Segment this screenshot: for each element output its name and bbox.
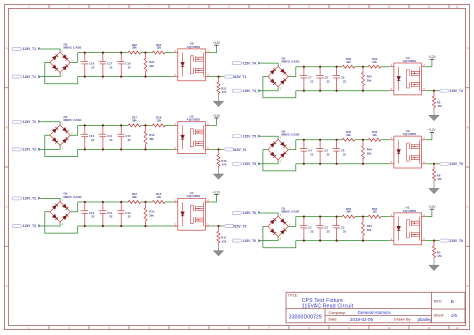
svg-text:C5: C5 — [324, 149, 328, 153]
power +12V — [213, 114, 221, 118]
svg-text:B: B — [467, 125, 469, 129]
power +12V — [428, 55, 436, 59]
wire P input to bridge top — [39, 49, 60, 52]
svg-text:C1: C1 — [308, 225, 312, 229]
wire P input to bridge top — [259, 213, 278, 216]
capacitor C14 — [98, 124, 113, 150]
capacitor C8 — [316, 66, 331, 92]
power +12V — [428, 128, 436, 132]
wire IC pin4 to +12V — [209, 45, 216, 52]
svg-text:13k: 13k — [156, 195, 161, 199]
svg-text:REV:: REV: — [434, 300, 442, 304]
svg-text:8: 8 — [308, 5, 310, 9]
capacitor C4 — [299, 139, 314, 165]
bridge rectifier D1 — [266, 214, 292, 241]
svg-text:R3: R3 — [437, 250, 441, 254]
resistor R52 — [342, 215, 355, 218]
svg-text:C13: C13 — [89, 134, 95, 138]
svg-text:Sheet:: Sheet: — [434, 314, 445, 318]
svg-text:4: 4 — [148, 5, 150, 9]
frame row tick marks left — [5, 88, 9, 247]
svg-text:C15: C15 — [125, 134, 131, 138]
connector 115V_T6 output — [439, 239, 449, 242]
svg-text:C3: C3 — [341, 225, 345, 229]
svg-text:Company:: Company: — [329, 311, 346, 315]
resistor R24 — [144, 53, 154, 78]
svg-text:115V_T5_N: 115V_T5_N — [243, 162, 261, 166]
wire N input to bridge bottom — [259, 160, 278, 164]
wire bridge left corner to bottom rail — [45, 135, 78, 156]
svg-text:115V_T6_N: 115V_T6_N — [243, 239, 261, 243]
wire top rail — [78, 201, 174, 203]
wire bottom rail — [296, 163, 390, 165]
svg-text:R6: R6 — [437, 174, 441, 178]
wire bottom rail — [78, 76, 174, 78]
svg-text:MB05_CASE: MB05_CASE — [64, 118, 82, 122]
svg-text:R16: R16 — [221, 159, 227, 163]
junction node — [362, 216, 364, 218]
resistor R14 — [144, 202, 154, 227]
svg-text:C11: C11 — [107, 211, 112, 215]
resistor R17 — [128, 124, 141, 127]
wire IC pin3 to output — [209, 76, 224, 78]
svg-text:R14: R14 — [149, 210, 155, 214]
capacitor C13 — [80, 124, 95, 150]
capacitor C18 — [117, 52, 132, 78]
resistor R13 — [152, 201, 165, 204]
svg-text:39k: 39k — [346, 210, 351, 214]
resistor R43 — [368, 138, 381, 141]
svg-text:115V_T4_P: 115V_T4_P — [243, 61, 261, 65]
svg-text:B: B — [6, 125, 8, 129]
title block dividers — [286, 292, 465, 323]
resistor R44 — [362, 140, 372, 165]
svg-text:AQY282S: AQY282S — [403, 132, 417, 136]
junction node — [144, 52, 146, 54]
connector 115V_T4 output — [439, 89, 449, 92]
svg-text:115V_T2_P: 115V_T2_P — [23, 120, 41, 124]
resistor R53 — [368, 215, 381, 218]
resistor R54 — [362, 217, 372, 242]
svg-text:MB05_CASE: MB05_CASE — [282, 133, 300, 137]
junction output node — [217, 148, 219, 150]
resistor R33 — [368, 65, 381, 68]
svg-text:115V_T5_P: 115V_T5_P — [243, 134, 261, 138]
svg-text:MB05_CASE: MB05_CASE — [64, 195, 82, 199]
resistor R18 — [152, 124, 165, 127]
svg-text:13k: 13k — [156, 46, 161, 50]
svg-text:39k: 39k — [346, 60, 351, 64]
capacitor C2 — [316, 216, 331, 242]
resistor R19 — [144, 125, 154, 150]
resistor R12 — [128, 201, 141, 204]
capacitor C16 — [80, 52, 95, 78]
wire bottom rail — [78, 148, 174, 150]
svg-text:5: 5 — [188, 5, 190, 9]
wire IC pin3 to output — [425, 90, 439, 92]
bridge rectifier D4 — [48, 199, 74, 226]
resistor R6 — [432, 164, 442, 183]
capacitor C17 — [98, 52, 113, 78]
title block border — [286, 292, 465, 323]
svg-text:115V_T4_N: 115V_T4_N — [243, 89, 261, 93]
relay U2 AQY282S — [390, 136, 425, 168]
svg-text:D: D — [6, 284, 8, 288]
svg-text:Date:: Date: — [329, 318, 338, 322]
svg-text:115V_T2: 115V_T2 — [233, 148, 246, 152]
svg-text:AQY282S: AQY282S — [187, 45, 201, 49]
svg-text:115V_T5: 115V_T5 — [450, 162, 463, 166]
wire bridge left corner to bottom rail — [45, 62, 78, 83]
connector J 115V_T5_N — [232, 162, 242, 165]
wire N input to bridge bottom — [259, 87, 278, 91]
relay U6 AQY282S — [174, 49, 209, 81]
wire bridge right corner to top rail — [70, 125, 77, 135]
svg-text:6: 6 — [228, 5, 230, 9]
svg-text:C: C — [467, 205, 469, 209]
svg-text:R21: R21 — [221, 86, 227, 90]
wire N input to bridge bottom — [39, 73, 60, 77]
svg-text:13k: 13k — [372, 210, 377, 214]
svg-text:115V_T1_N: 115V_T1_N — [23, 75, 41, 79]
wire IC pin3 to output — [209, 148, 224, 150]
svg-text:AQY282S: AQY282S — [403, 59, 417, 63]
wire top rail — [296, 216, 390, 218]
resistor R22 — [128, 51, 141, 54]
svg-text:10: 10 — [388, 5, 391, 9]
junction output node — [217, 76, 219, 78]
wire bottom rail — [78, 225, 174, 227]
svg-text:115V_T3_N: 115V_T3_N — [23, 224, 41, 228]
svg-text:Drawn By:: Drawn By: — [394, 318, 412, 322]
svg-text:R9: R9 — [437, 100, 441, 104]
bridge rectifier D2 — [266, 137, 292, 164]
resistor R9 — [432, 91, 442, 110]
wire IC pin3 to output — [209, 225, 224, 227]
wire bridge right corner to top rail — [70, 202, 77, 212]
power +12V — [213, 190, 221, 194]
wire bridge right corner to top rail — [288, 140, 296, 150]
wire IC pin4 to +12V — [425, 132, 432, 139]
svg-text:33000D00729: 33000D00729 — [289, 314, 322, 320]
svg-text:39k: 39k — [132, 46, 137, 50]
capacitor C7 — [299, 66, 314, 92]
svg-text:C10: C10 — [89, 211, 95, 215]
wire IC pin4 to +12V — [425, 59, 432, 66]
resistor R3 — [432, 241, 442, 260]
svg-text:MB05_CASE: MB05_CASE — [282, 60, 300, 64]
junction node — [362, 139, 364, 141]
connector J 115V_T2_P — [12, 120, 22, 123]
capacitor C11 — [98, 201, 113, 227]
svg-text:1: 1 — [28, 5, 30, 9]
wire bridge left corner to bottom rail — [263, 77, 296, 98]
capacitor C10 — [80, 201, 95, 227]
capacitor C1 — [299, 216, 314, 242]
wire top rail — [296, 139, 390, 141]
svg-text:D: D — [467, 284, 469, 288]
relay U4 AQY282S — [174, 198, 209, 230]
svg-text:3: 3 — [108, 5, 110, 9]
svg-text:C16: C16 — [89, 61, 95, 65]
resistor R11 — [217, 226, 227, 245]
bridge rectifier D3 — [266, 64, 292, 91]
connector J 115V_T1_P — [12, 48, 22, 51]
wire P input to bridge top — [39, 122, 60, 125]
wire bridge left corner to bottom rail — [263, 226, 296, 247]
junction output node — [433, 90, 435, 92]
wire top rail — [78, 52, 174, 54]
ground — [213, 168, 223, 179]
svg-text:R24: R24 — [149, 60, 155, 64]
connector 115V_T2 output — [224, 148, 234, 151]
svg-text:AQY282S: AQY282S — [187, 194, 201, 198]
capacitor C9 — [332, 66, 347, 92]
svg-text:MB05_CASE: MB05_CASE — [64, 45, 82, 49]
svg-text:7: 7 — [268, 5, 270, 9]
svg-text:MB05_CASE: MB05_CASE — [282, 209, 300, 213]
resistor R42 — [342, 138, 355, 141]
svg-text:1/6: 1/6 — [451, 313, 458, 318]
capacitor C6 — [332, 139, 347, 165]
wire bridge right corner to top rail — [288, 217, 296, 227]
wire top rail — [78, 124, 174, 126]
svg-text:TITLE:: TITLE: — [288, 293, 298, 297]
frame column numbers bottom — [28, 326, 459, 330]
wire IC pin4 to +12V — [425, 209, 432, 216]
junction node — [144, 124, 146, 126]
connector J 115V_T6_P — [232, 212, 242, 215]
junction node — [362, 66, 364, 68]
svg-text:R19: R19 — [149, 133, 155, 137]
svg-text:AQY282S: AQY282S — [403, 209, 417, 213]
svg-text:R11: R11 — [221, 236, 226, 240]
svg-text:13k: 13k — [372, 60, 377, 64]
svg-text:A: A — [467, 46, 469, 50]
connector J 115V_T3_N — [12, 225, 22, 228]
relay U3 AQY282S — [390, 63, 425, 95]
svg-text:39k: 39k — [132, 119, 137, 123]
wire top rail — [296, 66, 390, 68]
svg-text:C4: C4 — [308, 149, 312, 153]
svg-text:C9: C9 — [341, 76, 345, 80]
wire IC pin3 to output — [425, 163, 439, 165]
capacitor C12 — [117, 201, 132, 227]
resistor R34 — [362, 67, 372, 92]
svg-text:AQY282S: AQY282S — [187, 118, 201, 122]
resistor R32 — [342, 65, 355, 68]
connector J 115V_T4_N — [232, 89, 242, 92]
power +12V — [213, 41, 221, 45]
bridge rectifier D6 — [48, 50, 74, 77]
capacitor C5 — [316, 139, 331, 165]
svg-text:R44: R44 — [367, 147, 373, 151]
svg-text:C7: C7 — [308, 76, 312, 80]
svg-text:C6: C6 — [341, 149, 345, 153]
capacitor C15 — [117, 124, 132, 150]
svg-text:115V_T3_P: 115V_T3_P — [23, 197, 41, 201]
svg-text:C17: C17 — [107, 61, 113, 65]
ground — [429, 109, 439, 120]
ground — [429, 183, 439, 194]
svg-text:115V_T1_P: 115V_T1_P — [23, 47, 41, 51]
svg-text:115V_T2_N: 115V_T2_N — [23, 148, 41, 152]
svg-text:13k: 13k — [156, 119, 161, 123]
frame column tick marks bottom — [49, 326, 449, 330]
svg-text:B: B — [451, 299, 454, 304]
svg-text:11: 11 — [428, 5, 431, 9]
svg-text:C8: C8 — [324, 76, 328, 80]
svg-text:C2: C2 — [324, 225, 328, 229]
connector J 115V_T5_P — [232, 135, 242, 138]
ground — [213, 245, 223, 256]
relay U5 AQY282S — [174, 122, 209, 154]
frame row letters right — [467, 46, 469, 288]
svg-text:C12: C12 — [125, 211, 131, 215]
wire bottom rail — [296, 90, 390, 92]
frame row tick marks right — [466, 88, 470, 247]
svg-text:115V_T6_P: 115V_T6_P — [243, 211, 261, 215]
wire IC pin3 to output — [425, 240, 439, 242]
svg-text:115V_T6: 115V_T6 — [450, 239, 463, 243]
svg-text:General Atomics: General Atomics — [358, 310, 392, 315]
svg-text:R54: R54 — [367, 224, 373, 228]
svg-text:39k: 39k — [132, 195, 137, 199]
capacitor C3 — [332, 216, 347, 242]
wire bridge left corner to bottom rail — [263, 150, 296, 171]
connector J 115V_T6_N — [232, 239, 242, 242]
wire bottom rail — [296, 240, 390, 242]
resistor R23 — [152, 51, 165, 54]
ground — [213, 95, 223, 106]
svg-text:115V_T3: 115V_T3 — [233, 224, 246, 228]
svg-text:C14: C14 — [107, 134, 113, 138]
svg-text:C: C — [6, 205, 8, 209]
svg-text:2: 2 — [68, 5, 70, 9]
connector J 115V_T2_N — [12, 148, 22, 151]
svg-text:pbailey: pbailey — [418, 317, 433, 322]
resistor R16 — [217, 149, 227, 168]
svg-text:C18: C18 — [125, 61, 131, 65]
connector J 115V_T4_P — [232, 62, 242, 65]
wire N input to bridge bottom — [259, 237, 278, 241]
frame column numbers top — [28, 5, 459, 9]
wire N input to bridge bottom — [39, 222, 60, 226]
wire bridge right corner to top rail — [70, 53, 77, 63]
wire IC pin4 to +12V — [209, 118, 216, 125]
svg-text:9: 9 — [348, 5, 350, 9]
wire N input to bridge bottom — [39, 145, 60, 149]
connector 115V_T1 output — [224, 75, 234, 78]
frame column tick marks top — [49, 5, 449, 9]
frame row letters left — [6, 46, 8, 288]
svg-text:2019-02-05: 2019-02-05 — [350, 317, 374, 322]
wire P input to bridge top — [259, 136, 278, 139]
wire P input to bridge top — [39, 198, 60, 201]
svg-text:115V_T4: 115V_T4 — [450, 89, 463, 93]
wire bridge left corner to bottom rail — [45, 212, 78, 233]
power +12V — [428, 205, 436, 209]
svg-text:13k: 13k — [372, 133, 377, 137]
wire P input to bridge top — [259, 63, 278, 66]
svg-text:A: A — [6, 46, 8, 50]
svg-text:115VAC Read Circuit: 115VAC Read Circuit — [302, 303, 354, 309]
ground — [429, 259, 439, 270]
relay U1 AQY282S — [390, 213, 425, 245]
svg-text:115V_T1: 115V_T1 — [233, 75, 246, 79]
junction output node — [217, 225, 219, 227]
junction node — [144, 201, 146, 203]
connector J 115V_T1_N — [12, 75, 22, 78]
connector 115V_T5 output — [439, 162, 449, 165]
connector 115V_T3 output — [224, 225, 234, 228]
wire IC pin4 to +12V — [209, 195, 216, 202]
resistor R21 — [217, 77, 227, 96]
wire bridge right corner to top rail — [288, 67, 296, 77]
svg-text:12: 12 — [456, 5, 459, 9]
svg-text:R34: R34 — [367, 74, 373, 78]
junction output node — [433, 163, 435, 165]
connector J 115V_T3_P — [12, 197, 22, 200]
bridge rectifier D5 — [48, 122, 74, 149]
junction output node — [433, 240, 435, 242]
svg-text:39k: 39k — [346, 133, 351, 137]
